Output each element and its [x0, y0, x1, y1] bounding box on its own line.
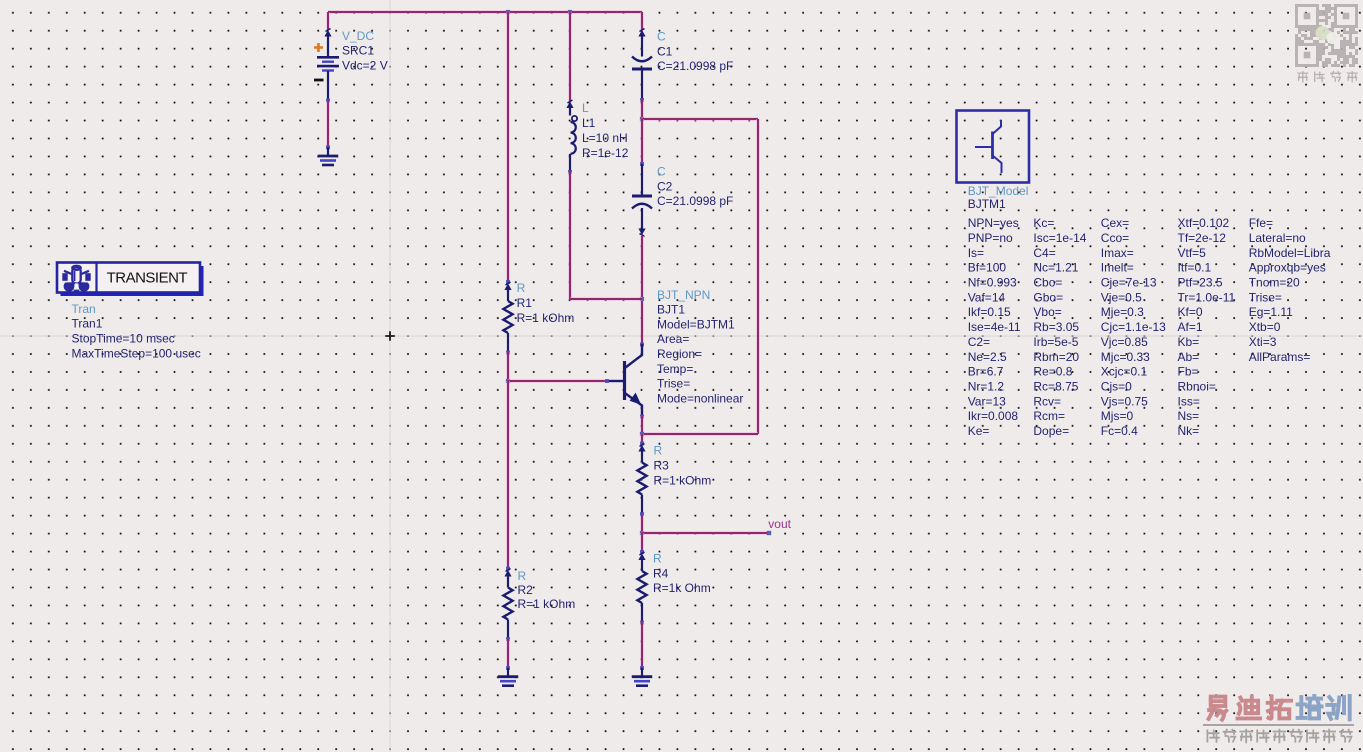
node vout terminal	[767, 531, 771, 535]
svg-text:Tf=2e-12: Tf=2e-12	[1178, 231, 1227, 245]
svg-text:R1: R1	[517, 296, 533, 310]
svg-text:BJT_Model: BJT_Model	[968, 184, 1029, 198]
svg-text:C=21.0998 pF: C=21.0998 pF	[657, 59, 733, 73]
svg-text:C1: C1	[657, 44, 673, 58]
svg-text:BJTM1: BJTM1	[968, 197, 1006, 211]
svg-text:Rc=8.75: Rc=8.75	[1033, 380, 1078, 394]
svg-text:Kb=: Kb=	[1178, 335, 1200, 349]
wire C1 to node	[640, 100, 644, 119]
svg-text:Ptf=23.5: Ptf=23.5	[1178, 276, 1223, 290]
resistor R3	[637, 442, 646, 516]
svg-text:R=1 kOhm: R=1 kOhm	[654, 473, 712, 487]
svg-text:Nr=1.2: Nr=1.2	[968, 380, 1005, 394]
svg-text:Imax=: Imax=	[1101, 246, 1134, 260]
svg-text:Vje=0.5: Vje=0.5	[1101, 290, 1142, 304]
label R3	[654, 444, 712, 488]
svg-text:Isc=1e-14: Isc=1e-14	[1033, 231, 1086, 245]
svg-text:Ise=4e-11: Ise=4e-11	[968, 320, 1021, 334]
svg-text:StopTime=10 msec: StopTime=10 msec	[72, 332, 175, 346]
label L1	[582, 101, 629, 160]
svg-text:Re=0.8: Re=0.8	[1033, 365, 1072, 379]
svg-text:Kc=: Kc=	[1033, 216, 1054, 230]
wire rail down to R1	[506, 12, 510, 281]
ground below R2	[498, 666, 519, 686]
ground below SRC1	[318, 145, 339, 165]
svg-text:Vtf=5: Vtf=5	[1178, 246, 1207, 260]
svg-text:R: R	[654, 444, 663, 458]
svg-text:BJT1: BJT1	[657, 303, 685, 317]
svg-text:Bf=100: Bf=100	[968, 261, 1007, 275]
svg-text:Rbm=20: Rbm=20	[1033, 350, 1079, 364]
svg-text:Ns=: Ns=	[1178, 409, 1200, 423]
wire top supply rail	[328, 10, 642, 14]
wire SRC1 to ground	[326, 101, 330, 147]
ground below R4	[632, 666, 653, 686]
svg-text:Var=13: Var=13	[968, 394, 1006, 408]
resistor R1	[503, 280, 512, 354]
svg-text:R3: R3	[654, 459, 670, 473]
junction L1/collector node	[640, 297, 644, 301]
capacitor C2	[632, 162, 652, 236]
wire R4 to ground	[640, 622, 644, 668]
wire right branch down	[756, 119, 760, 434]
svg-text:Vjc=0.85: Vjc=0.85	[1101, 335, 1148, 349]
inductor L1	[566, 100, 577, 174]
transistor BJT1	[605, 343, 644, 419]
svg-text:Iss=: Iss=	[1178, 394, 1200, 408]
label R4	[653, 552, 711, 596]
BJT model symbol U_BJTM1	[957, 111, 1030, 183]
svg-text:Region=: Region=	[657, 347, 702, 361]
label C1	[657, 30, 733, 74]
svg-text:Cje=7e-13: Cje=7e-13	[1101, 276, 1157, 290]
svg-text:V_DC: V_DC	[342, 29, 374, 43]
junction vout node	[640, 531, 644, 535]
resistor R4	[637, 550, 646, 624]
wire C2 to collector node	[640, 236, 644, 344]
svg-text:BJT_NPN: BJT_NPN	[657, 288, 710, 302]
svg-text:Mje=0.3: Mje=0.3	[1101, 305, 1144, 319]
svg-text:Temp=: Temp=	[657, 362, 693, 376]
wire vout	[642, 531, 769, 535]
svg-text:C2=: C2=	[968, 335, 990, 349]
svg-text:Tr=1.0e-11: Tr=1.0e-11	[1178, 290, 1236, 304]
svg-text:Vjs=0.75: Vjs=0.75	[1101, 394, 1148, 408]
wire base node down to R2	[506, 381, 510, 567]
svg-text:Nc=1.21: Nc=1.21	[1033, 261, 1078, 275]
svg-text:Tran: Tran	[72, 302, 96, 316]
svg-text:R: R	[653, 552, 662, 566]
wire L1 to collector column	[570, 297, 642, 301]
svg-text:L=10 nH: L=10 nH	[582, 131, 628, 145]
svg-text:Ikr=0.008: Ikr=0.008	[968, 409, 1019, 423]
svg-text:Xtf=0.102: Xtf=0.102	[1178, 216, 1230, 230]
label SRC1	[342, 29, 388, 73]
svg-text:Cex=: Cex=	[1101, 216, 1129, 230]
svg-text:RbModel=Libra: RbModel=Libra	[1249, 246, 1331, 260]
svg-text:Xcjc=0.1: Xcjc=0.1	[1101, 365, 1148, 379]
svg-text:Br=6.7: Br=6.7	[968, 365, 1004, 379]
label C2	[657, 164, 733, 208]
svg-text:R2: R2	[518, 583, 534, 597]
svg-text:Kf=0: Kf=0	[1178, 305, 1203, 319]
svg-text:MaxTimeStep=100 usec: MaxTimeStep=100 usec	[72, 347, 201, 361]
wire node to right branch	[642, 117, 758, 121]
wire emitter to feedback node	[640, 416, 644, 434]
simulation controller TRANSIENT	[57, 263, 204, 297]
svg-text:R: R	[517, 281, 526, 295]
svg-text:Mode=nonlinear: Mode=nonlinear	[657, 391, 743, 405]
label BJTM1 parameters	[968, 216, 1331, 438]
svg-text:Vdc=2 V: Vdc=2 V	[342, 59, 388, 73]
svg-text:Rbnoi=: Rbnoi=	[1178, 380, 1216, 394]
svg-text:Cjs=0: Cjs=0	[1101, 380, 1132, 394]
svg-text:TRANSIENT: TRANSIENT	[107, 270, 188, 287]
svg-text:Vaf=14: Vaf=14	[968, 290, 1006, 304]
svg-text:Irb=5e-5: Irb=5e-5	[1033, 335, 1078, 349]
svg-text:Area=: Area=	[657, 332, 689, 346]
svg-text:R: R	[518, 569, 527, 583]
wire feedback bottom to emitter node	[642, 432, 758, 436]
wire L1 down	[568, 172, 572, 299]
label R2	[518, 569, 576, 611]
svg-text:Ikf=0.15: Ikf=0.15	[968, 305, 1011, 319]
svg-text:Approxqb=yes: Approxqb=yes	[1249, 261, 1326, 275]
svg-text:Ab=: Ab=	[1178, 350, 1200, 364]
svg-text:Ne=2.5: Ne=2.5	[968, 350, 1007, 364]
svg-text:Cco=: Cco=	[1101, 231, 1129, 245]
svg-text:SRC1: SRC1	[342, 44, 374, 58]
label R1	[517, 281, 575, 325]
svg-text:NPN=yes: NPN=yes	[968, 216, 1019, 230]
resistor R2	[503, 567, 512, 641]
svg-text:Af=1: Af=1	[1178, 320, 1203, 334]
node origin marker	[385, 331, 395, 341]
voltage source SRC1	[314, 29, 339, 103]
wire R3 to vout node	[640, 515, 644, 533]
svg-text:Tran1: Tran1	[72, 317, 103, 331]
svg-text:vout: vout	[768, 517, 791, 531]
svg-text:Fc=0.4: Fc=0.4	[1101, 424, 1138, 438]
svg-text:Trise=: Trise=	[1249, 290, 1282, 304]
svg-text:C: C	[657, 30, 666, 44]
wire rail down to L1	[568, 12, 572, 101]
svg-text:Fb=: Fb=	[1178, 365, 1199, 379]
svg-text:R=1k Ohm: R=1k Ohm	[653, 581, 711, 595]
svg-text:Cbo=: Cbo=	[1033, 276, 1062, 290]
junction top rail at L1 column	[568, 10, 572, 14]
junction base node	[506, 379, 510, 383]
wire vout node to R4	[640, 533, 644, 553]
svg-text:R=1 kOhm: R=1 kOhm	[517, 311, 575, 325]
svg-text:Rb=3.05: Rb=3.05	[1033, 320, 1079, 334]
svg-text:R=1e-12: R=1e-12	[582, 146, 629, 160]
svg-text:Xti=3: Xti=3	[1249, 335, 1277, 349]
svg-text:Mjs=0: Mjs=0	[1101, 409, 1134, 423]
svg-text:Dope=: Dope=	[1033, 424, 1069, 438]
svg-text:Nk=: Nk=	[1178, 424, 1200, 438]
svg-text:Model=BJTM1: Model=BJTM1	[657, 317, 735, 331]
wire SRC1 top lead	[326, 12, 330, 30]
wire R1 to base node	[506, 352, 510, 381]
svg-text:Vbo=: Vbo=	[1033, 305, 1061, 319]
svg-text:PNP=no: PNP=no	[968, 231, 1013, 245]
svg-text:Is=: Is=	[968, 246, 984, 260]
junction node C1/C2/right branch	[640, 117, 644, 121]
label BJT1	[657, 288, 743, 406]
svg-text:Nf=0.993: Nf=0.993	[968, 276, 1017, 290]
svg-text:Rcm=: Rcm=	[1033, 409, 1065, 423]
svg-text:Lateral=no: Lateral=no	[1249, 231, 1306, 245]
junction emitter/feedback node	[640, 432, 644, 436]
svg-text:Eg=1.11: Eg=1.11	[1249, 305, 1293, 319]
svg-text:C=21.0998 pF: C=21.0998 pF	[657, 194, 733, 208]
svg-text:Itf=0.1: Itf=0.1	[1178, 261, 1212, 275]
svg-text:C2: C2	[657, 179, 673, 193]
svg-text:AllParams=: AllParams=	[1249, 350, 1311, 364]
junction top rail at R1 column	[506, 10, 510, 14]
wire node to R3	[640, 434, 644, 445]
label BJTM1	[968, 184, 1029, 211]
svg-text:Mjc=0.33: Mjc=0.33	[1101, 350, 1150, 364]
wire base node to base pin	[508, 379, 607, 383]
svg-text:L: L	[582, 101, 589, 115]
label vout	[768, 517, 791, 531]
svg-text:Rcv=: Rcv=	[1033, 394, 1061, 408]
svg-text:C: C	[657, 164, 666, 178]
svg-text:R=1 kOhm: R=1 kOhm	[518, 597, 576, 611]
svg-text:Trise=: Trise=	[657, 377, 690, 391]
svg-text:Imelt=: Imelt=	[1101, 261, 1134, 275]
svg-text:L1: L1	[582, 116, 596, 130]
capacitor C1	[632, 29, 652, 102]
wire node down to C2	[640, 119, 644, 163]
svg-text:R4: R4	[653, 566, 669, 580]
wire R2 to ground	[506, 639, 510, 668]
svg-text:Ffe=: Ffe=	[1249, 216, 1273, 230]
svg-text:C4=: C4=	[1033, 246, 1055, 260]
svg-text:Tnom=20: Tnom=20	[1249, 276, 1300, 290]
svg-text:Gbo=: Gbo=	[1033, 290, 1063, 304]
label Tran1	[72, 302, 201, 361]
svg-text:Xtb=0: Xtb=0	[1249, 320, 1281, 334]
wire rail down to C1	[640, 12, 644, 30]
svg-text:Cjc=1.1e-13: Cjc=1.1e-13	[1101, 320, 1166, 334]
svg-text:Ke=: Ke=	[968, 424, 990, 438]
